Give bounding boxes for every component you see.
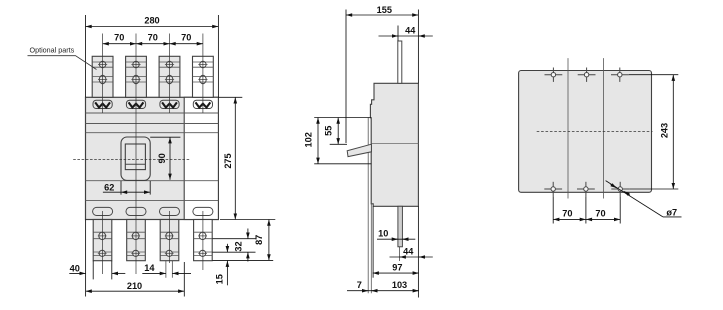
dim 87 xyxy=(212,220,273,261)
top terminal block 4 (optional, white) xyxy=(193,56,214,97)
pole 4 center line xyxy=(202,34,204,114)
svg-text:44: 44 xyxy=(405,26,416,36)
bottom terminal block 1 xyxy=(93,220,112,261)
seam line right xyxy=(603,58,605,198)
top terminal block 2 xyxy=(126,56,147,97)
svg-text:102: 102 xyxy=(303,132,313,147)
side body xyxy=(370,83,418,206)
mounting hole bottom-middle xyxy=(577,182,595,196)
mounting hole bottom-right xyxy=(611,182,629,196)
arc-chute vent symbol pole 4 xyxy=(193,100,212,108)
svg-text:280: 280 xyxy=(144,15,159,25)
svg-text:15: 15 xyxy=(214,274,224,284)
svg-text:243: 243 xyxy=(660,123,670,138)
mounting slot pole 4 xyxy=(193,207,213,215)
svg-text:14: 14 xyxy=(144,263,155,273)
svg-text:90: 90 xyxy=(157,153,167,163)
arc-chute vent symbol pole 1 xyxy=(93,100,112,108)
hole diameter callout xyxy=(606,181,682,217)
FRONT VIEW xyxy=(28,15,276,297)
REAR VIEW xyxy=(519,58,682,223)
dashed center line xyxy=(537,130,653,132)
dim 40 xyxy=(69,261,125,280)
dim 32 xyxy=(212,229,255,262)
top terminal block 1 xyxy=(92,56,113,97)
svg-text:55: 55 xyxy=(323,126,333,136)
dim 62 xyxy=(103,181,150,195)
pole 1 center line xyxy=(102,34,104,114)
svg-text:70: 70 xyxy=(148,33,158,43)
svg-text:7: 7 xyxy=(357,280,362,290)
escutcheon (handle frame) xyxy=(121,137,150,180)
svg-text:ø7: ø7 xyxy=(666,207,677,217)
svg-text:70: 70 xyxy=(562,208,572,218)
dim 44 bottom xyxy=(390,256,433,258)
SIDE VIEW xyxy=(303,5,433,298)
body band line 5 (slot band top) xyxy=(86,200,219,202)
mounting hole top-right xyxy=(611,68,629,82)
svg-text:97: 97 xyxy=(392,262,402,272)
mounting hole top-middle xyxy=(578,68,596,82)
cover seam line xyxy=(371,143,418,145)
svg-text:40: 40 xyxy=(70,264,80,274)
dashed center line xyxy=(73,159,190,161)
arc-chute vent symbol pole 3 xyxy=(160,100,179,108)
svg-text:10: 10 xyxy=(378,229,388,239)
dim 55 xyxy=(330,118,347,145)
body band line 3 xyxy=(86,132,219,134)
dim 210 xyxy=(86,220,185,297)
dim 90 xyxy=(150,137,180,180)
body band line 2 xyxy=(86,123,219,125)
dim 97 xyxy=(373,206,419,277)
mounting slot pole 3 xyxy=(160,207,180,215)
svg-text:32: 32 xyxy=(233,241,243,251)
svg-text:87: 87 xyxy=(254,235,264,245)
mounting hole bottom-left xyxy=(544,182,562,196)
dim 7 and 103 xyxy=(347,290,419,292)
rear plate xyxy=(519,71,652,193)
mounting slot pole 2 xyxy=(126,207,146,215)
handle shaft (top) xyxy=(398,41,402,83)
handle xyxy=(125,144,145,170)
dim 15 xyxy=(226,244,228,285)
mounting hole top-left xyxy=(545,68,563,82)
top terminal block 3 xyxy=(159,56,180,97)
svg-text:210: 210 xyxy=(127,281,142,291)
pole 3 center line xyxy=(169,34,171,114)
dim 243 xyxy=(629,75,679,189)
svg-text:70: 70 xyxy=(181,33,191,43)
body band line 4 xyxy=(86,180,219,182)
dim 280 xyxy=(86,15,219,97)
bottom terminal block 3 xyxy=(160,220,179,261)
panel plane lines (7mm) xyxy=(367,118,369,294)
dim 70 x2 (rear) xyxy=(553,196,620,223)
stud center line xyxy=(399,247,401,261)
svg-text:Optional parts: Optional parts xyxy=(30,46,75,55)
seam line left xyxy=(567,58,569,198)
lines for 14 dim through block 3 xyxy=(165,231,167,278)
svg-text:70: 70 xyxy=(114,33,124,43)
body band line 1 xyxy=(86,112,219,114)
dim 44 top xyxy=(379,26,433,42)
bottom terminal block 2 xyxy=(127,220,146,261)
svg-text:70: 70 xyxy=(595,208,605,218)
dim 14 xyxy=(142,272,191,274)
toggle lever xyxy=(347,144,371,156)
rear stud (bottom) xyxy=(398,206,403,247)
svg-text:62: 62 xyxy=(104,182,114,192)
mounting slot pole 1 xyxy=(93,207,113,215)
pole 2 center line xyxy=(135,34,137,275)
4th pole white column xyxy=(184,97,218,219)
dim 155 xyxy=(346,10,418,298)
dim 10 xyxy=(377,238,415,240)
breaker body xyxy=(86,97,219,219)
arc-chute vent symbol pole 2 xyxy=(126,100,145,108)
svg-text:44: 44 xyxy=(403,247,414,257)
dim 102 xyxy=(314,118,371,164)
svg-text:155: 155 xyxy=(377,5,392,15)
svg-text:103: 103 xyxy=(392,280,407,290)
bottom terminal block 4 (optional, white) xyxy=(194,220,213,261)
dim 70 x3 xyxy=(103,43,203,45)
svg-text:275: 275 xyxy=(223,153,233,168)
dim 275 xyxy=(218,97,275,219)
